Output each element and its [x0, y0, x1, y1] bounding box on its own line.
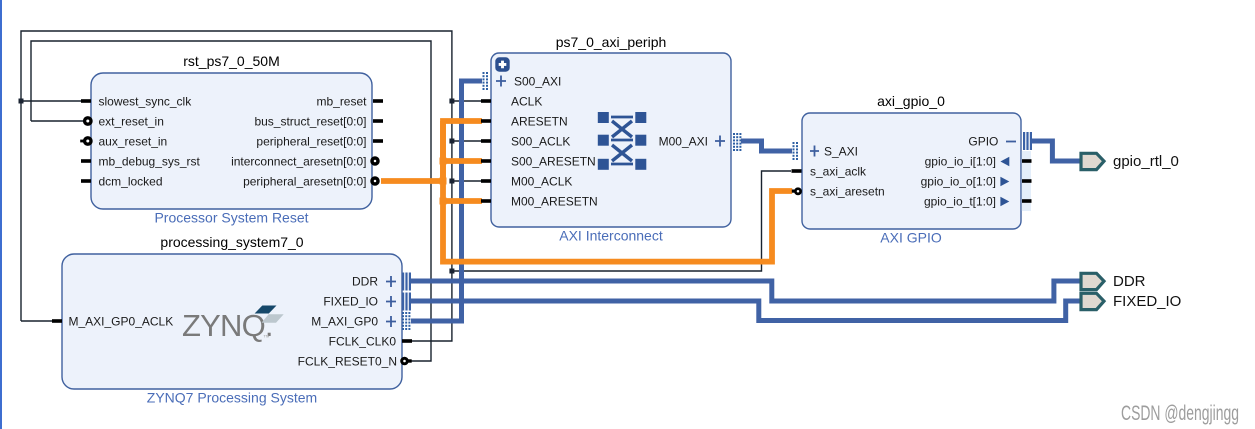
svg-text:M_AXI_GP0: M_AXI_GP0	[311, 315, 378, 329]
pin peripheral_reset	[373, 139, 383, 143]
junction orange S00_ARESETN	[440, 158, 447, 165]
wire orange peripheral_aresetn net	[381, 121, 792, 262]
svg-text:mb_debug_sys_rst: mb_debug_sys_rst	[99, 155, 201, 169]
svg-text:M00_AXI: M00_AXI	[659, 135, 708, 149]
svg-text:ps7_0_axi_periph: ps7_0_axi_periph	[556, 34, 667, 50]
svg-text:M00_ARESETN: M00_ARESETN	[511, 195, 598, 209]
pin FCLK_CLK0	[402, 339, 412, 343]
pin M_AXI_GP0	[311, 312, 410, 330]
pin GPIO	[968, 132, 1032, 150]
pin S00_ACLK	[481, 139, 491, 143]
svg-text:FIXED_IO: FIXED_IO	[323, 295, 378, 309]
svg-text:rst_ps7_0_50M: rst_ps7_0_50M	[183, 53, 280, 69]
svg-text:s_axi_aresetn: s_axi_aresetn	[810, 185, 885, 199]
pin ACLK	[481, 99, 491, 103]
pin ARESETN	[481, 119, 491, 123]
svg-text:M_AXI_GP0_ACLK: M_AXI_GP0_ACLK	[69, 315, 174, 329]
svg-text:FCLK_CLK0: FCLK_CLK0	[329, 335, 397, 349]
svg-text:gpio_io_o[1:0]: gpio_io_o[1:0]	[921, 175, 996, 189]
expanded interface band	[1022, 151, 1031, 211]
junction clock/ACLK	[449, 99, 454, 104]
pin S00_ARESETN	[481, 159, 491, 163]
svg-text:processing_system7_0: processing_system7_0	[160, 234, 303, 250]
pin s_axi_aresetn	[792, 190, 796, 193]
block ps7_0_axi_periph	[491, 53, 731, 227]
pin mb_debug_sys_rst	[81, 159, 91, 163]
pin M00_ACLK	[481, 179, 491, 183]
svg-text:DDR: DDR	[352, 275, 378, 289]
pin M00_AXI	[659, 133, 742, 151]
pin s_axi_aclk	[792, 169, 802, 173]
pin mb_reset	[373, 99, 383, 103]
svg-text:axi_gpio_0: axi_gpio_0	[877, 93, 945, 109]
wire blue DDR	[411, 281, 1081, 301]
pin slowest_sync_clk	[81, 99, 91, 103]
svg-text:CSDN @dengjingg: CSDN @dengjingg	[1121, 402, 1239, 425]
wire blue GPIO	[1031, 141, 1081, 161]
pin gpio_io_o	[921, 175, 1032, 189]
svg-text:dcm_locked: dcm_locked	[99, 175, 163, 189]
wire clock net frame	[21, 31, 791, 341]
svg-text:peripheral_reset[0:0]: peripheral_reset[0:0]	[256, 135, 366, 149]
wire blue M_AXI_GP0 to S00_AXI	[411, 81, 482, 321]
svg-text:aux_reset_in: aux_reset_in	[99, 135, 168, 149]
svg-text:FIXED_IO: FIXED_IO	[1113, 293, 1181, 310]
svg-text:peripheral_aresetn[0:0]: peripheral_aresetn[0:0]	[243, 175, 366, 189]
svg-text:s_axi_aclk: s_axi_aclk	[810, 165, 867, 179]
pin S_AXI	[793, 142, 859, 160]
svg-text:mb_reset: mb_reset	[316, 95, 367, 109]
junction clock/S00_ACLK	[449, 139, 454, 144]
pin S00_AXI	[483, 72, 562, 90]
svg-text:M00_ACLK: M00_ACLK	[511, 175, 572, 189]
canvas left edge line	[0, 0, 2, 429]
svg-text:ZYNQ7 Processing System: ZYNQ7 Processing System	[147, 390, 317, 406]
pin ext_reset_in	[85, 118, 91, 124]
pin peripheral_aresetn	[372, 178, 378, 184]
svg-text:S_AXI: S_AXI	[824, 145, 858, 159]
pin FIXED_IO	[323, 293, 411, 311]
svg-text:GPIO: GPIO	[968, 135, 998, 149]
pin dcm_locked	[81, 179, 91, 183]
junction clock/s_axi_aclk branch	[449, 269, 454, 274]
pin M_AXI_GP0_ACLK	[52, 319, 62, 323]
svg-text:S00_ARESETN: S00_ARESETN	[511, 155, 596, 169]
ZYNQ logo	[182, 306, 284, 344]
svg-text:FCLK_RESET0_N: FCLK_RESET0_N	[298, 355, 397, 369]
pin gpio_io_t	[924, 195, 1032, 209]
svg-text:S00_AXI: S00_AXI	[514, 75, 561, 89]
junction orange M00_ARESETN	[440, 198, 447, 205]
pin aux_reset_in	[85, 138, 91, 144]
svg-text:AXI Interconnect: AXI Interconnect	[559, 228, 663, 244]
junction clock/M00_ACLK	[449, 179, 454, 184]
block rst_ps7_0_50M	[91, 73, 372, 209]
block processing_system7_0	[62, 254, 402, 389]
svg-text:DDR: DDR	[1113, 273, 1146, 290]
svg-text:AXI GPIO: AXI GPIO	[880, 230, 942, 246]
svg-text:S00_ACLK: S00_ACLK	[511, 135, 570, 149]
svg-text:bus_struct_reset[0:0]: bus_struct_reset[0:0]	[254, 115, 366, 129]
pin interconnect_aresetn	[372, 158, 378, 164]
block axi_gpio_0	[802, 113, 1021, 229]
junction clock/slowest_sync_clk	[19, 99, 24, 104]
pin bus_struct_reset	[373, 119, 383, 123]
wire blue M00_AXI to S_AXI	[741, 141, 792, 151]
pin DDR	[352, 273, 411, 291]
crossbar icon	[598, 112, 647, 170]
svg-text:Processor System Reset: Processor System Reset	[154, 210, 308, 226]
svg-text:gpio_io_t[1:0]: gpio_io_t[1:0]	[924, 195, 996, 209]
pin FCLK_RESET0_N	[402, 358, 408, 364]
svg-text:gpio_rtl_0: gpio_rtl_0	[1113, 153, 1179, 170]
svg-text:ACLK: ACLK	[511, 95, 542, 109]
wire reset net frame	[31, 41, 431, 361]
port FIXED_IO	[1081, 293, 1181, 310]
junction orange peripheral_aresetn	[440, 178, 447, 185]
svg-text:interconnect_aresetn[0:0]: interconnect_aresetn[0:0]	[231, 155, 366, 169]
port DDR	[1081, 273, 1146, 290]
port gpio_rtl_0	[1081, 153, 1179, 170]
pin gpio_io_i	[925, 155, 1032, 169]
svg-text:TM: TM	[264, 334, 270, 339]
wire blue FIXED_IO	[411, 301, 1081, 321]
svg-text:slowest_sync_clk: slowest_sync_clk	[99, 95, 193, 109]
expand button	[495, 57, 509, 71]
svg-text:ARESETN: ARESETN	[511, 115, 568, 129]
svg-text:ext_reset_in: ext_reset_in	[99, 115, 164, 129]
pin M00_ARESETN	[481, 199, 491, 203]
svg-text:gpio_io_i[1:0]: gpio_io_i[1:0]	[925, 155, 996, 169]
